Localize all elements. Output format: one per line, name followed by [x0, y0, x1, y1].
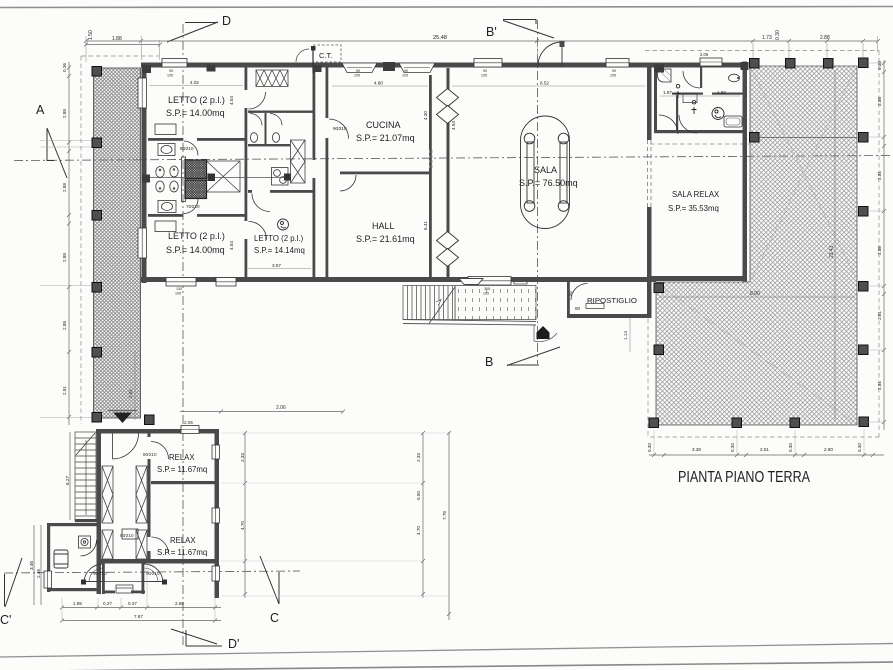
porch pillar P7 right of triangle	[145, 415, 155, 425]
sliding track line with blocks	[150, 177, 290, 179]
furniture letto1 dresser	[155, 124, 176, 135]
svg-text:2.33: 2.33	[416, 453, 421, 462]
wall: wc bottom y144	[248, 144, 290, 146]
window: south wall letto2	[166, 278, 236, 287]
laundry fixtures	[272, 168, 289, 186]
wall: ripostiglio right x647	[647, 281, 652, 318]
terrace diagonals	[657, 68, 856, 423]
porch landing step	[103, 582, 144, 594]
wall: ripostiglio bottom y314	[567, 314, 652, 318]
svg-text:SALA: SALA	[534, 165, 557, 175]
wall: hall right x429	[429, 75, 432, 277]
wc stall fixtures	[250, 114, 282, 143]
svg-text:2.88: 2.88	[62, 253, 67, 262]
wall: bottom bldg left lower	[97, 519, 102, 594]
window: bottom bldg top wall	[181, 426, 199, 434]
svg-text:C': C'	[0, 613, 11, 627]
svg-text:7.78: 7.78	[442, 511, 447, 520]
svg-text:2.81: 2.81	[62, 386, 67, 395]
svg-text:90⁄210: 90⁄210	[93, 571, 107, 576]
door arc: bath south	[184, 199, 199, 214]
wardrobe X-box bath east	[207, 161, 241, 192]
scan artifact bottom line 1	[0, 644, 893, 658]
wall: top exterior	[141, 63, 747, 68]
svg-text:2.81: 2.81	[877, 171, 882, 180]
svg-text:25.48: 25.48	[433, 35, 447, 41]
svg-text:D: D	[222, 14, 231, 28]
staircase bottom bldg	[75, 432, 96, 521]
dashed opening sala right wall	[648, 140, 652, 207]
door arc: letto3	[252, 194, 270, 212]
svg-text:80⁄210: 80⁄210	[180, 146, 194, 151]
window: top wall letto1	[162, 59, 187, 68]
wall: annex bottom	[47, 588, 101, 591]
svg-text:CUCINA: CUCINA	[366, 120, 401, 130]
svg-text:90: 90	[356, 69, 360, 73]
boiler annex	[79, 536, 91, 548]
bathtub NE	[724, 116, 742, 127]
svg-text:80: 80	[568, 290, 573, 296]
svg-text:7.87: 7.87	[134, 614, 143, 619]
washer annex	[54, 550, 68, 568]
window: top wall cucina 1 (trapezoid)	[342, 63, 377, 73]
svg-text:RELAX: RELAX	[169, 453, 195, 462]
wardrobe X-box top corridor	[256, 70, 288, 87]
svg-text:2.88: 2.88	[877, 97, 882, 106]
wall: annex top y523	[47, 523, 101, 526]
dim chains left of bottom bldg	[34, 432, 70, 605]
svg-text:80⁄210: 80⁄210	[143, 452, 157, 457]
svg-text:SALA RELAX: SALA RELAX	[672, 190, 720, 199]
left dimension chain	[40, 62, 92, 425]
svg-text:2.05: 2.05	[184, 420, 193, 425]
window: annex left wall	[44, 571, 52, 588]
washbasin NE	[683, 94, 697, 103]
person icon 1	[676, 84, 681, 98]
wc + bidet bath south	[156, 181, 178, 192]
window: south wall sala	[468, 277, 511, 286]
dimension labels top	[88, 30, 830, 57]
wall: bottom bldg top	[96, 429, 138, 434]
wall: corridor right x312	[313, 67, 316, 278]
svg-text:0.50: 0.50	[416, 491, 421, 500]
wall: corridor left x244	[245, 67, 248, 278]
svg-text:S.P.= 11.67mq: S.P.= 11.67mq	[157, 548, 207, 557]
wall: cucina-hall divider y171	[340, 172, 429, 175]
scan artifact bottom line 2	[0, 662, 893, 670]
window: bottom bldg right wall x3	[212, 445, 220, 581]
wall: ripostiglio left x567	[567, 282, 570, 318]
terrace inner dim horizontal	[660, 296, 855, 298]
svg-text:4.80: 4.80	[374, 81, 383, 86]
window: top wall sala 2	[606, 59, 629, 68]
svg-text:C.T.: C.T.	[319, 51, 332, 60]
window: wing left wall 1	[138, 78, 147, 108]
svg-text:6.27: 6.27	[65, 476, 70, 485]
band bottom landing edge	[403, 320, 536, 326]
svg-text:2.80: 2.80	[824, 447, 833, 452]
svg-text:130: 130	[176, 287, 182, 291]
svg-text:4.54: 4.54	[229, 241, 234, 250]
svg-text:2.88: 2.88	[62, 109, 67, 118]
svg-text:D': D'	[228, 637, 239, 651]
terrace pillar west column	[654, 283, 664, 293]
section line A-A' (horizontal dash-dot)	[14, 156, 890, 161]
top overall dimension line	[84, 36, 880, 62]
dark shower boxes center	[182, 157, 207, 202]
entrance arrow south	[537, 326, 550, 339]
pier between cucina windows	[383, 62, 395, 71]
svg-text:LETTO (2 p.l.): LETTO (2 p.l.)	[168, 231, 225, 241]
wall: sala right x647 upper	[647, 66, 652, 140]
door arc: C.T. entry	[296, 49, 309, 62]
porch pillar P1	[92, 67, 102, 77]
window: top wall cucina 2 (trapezoid)	[399, 63, 435, 73]
svg-text:2.88: 2.88	[62, 183, 67, 192]
svg-text:B': B'	[486, 25, 497, 39]
person icon 2	[692, 100, 697, 114]
svg-text:105: 105	[167, 74, 173, 78]
svg-text:1.97: 1.97	[663, 90, 672, 95]
wall: letto3 top y190	[248, 190, 252, 193]
svg-text:PIANTA PIANO TERRA: PIANTA PIANO TERRA	[678, 469, 811, 486]
svg-text:S.P.= 14.14mq: S.P.= 14.14mq	[254, 246, 305, 255]
terrace pillar row top	[750, 59, 760, 69]
svg-text:0.27: 0.27	[128, 601, 137, 606]
dim chains right of bottom bldg	[221, 431, 451, 620]
wall: bath block left x654	[654, 67, 657, 133]
svg-text:0.30: 0.30	[647, 443, 652, 452]
svg-text:LETTO (2 p.l.): LETTO (2 p.l.)	[254, 234, 304, 243]
curved porch step left bulge	[84, 564, 103, 582]
terrace pillar east column	[859, 133, 869, 143]
svg-text:6.41: 6.41	[423, 221, 428, 230]
shower NE	[658, 69, 672, 82]
porch pillar P3	[92, 211, 102, 221]
porch pillar P2	[92, 138, 102, 148]
svg-text:S.P.= 35.53mq: S.P.= 35.53mq	[668, 204, 719, 213]
svg-text:0.30: 0.30	[775, 30, 781, 40]
svg-text:70⁄210: 70⁄210	[186, 204, 200, 209]
main entrance door arc (sala top)	[538, 42, 562, 66]
svg-text:8.52: 8.52	[540, 81, 549, 86]
curved porch step right bulge	[144, 564, 163, 582]
svg-text:1.73: 1.73	[762, 35, 772, 41]
vestibule walls	[102, 563, 105, 594]
accessibility circle letto3	[278, 219, 289, 230]
small table corridor	[122, 529, 138, 539]
svg-text:S.P.= 14.00mq: S.P.= 14.00mq	[166, 108, 225, 118]
svg-text:90: 90	[404, 69, 408, 73]
door arc: hall	[340, 175, 356, 191]
hall-sala column diamonds pair2	[437, 232, 459, 267]
porch pillar P6	[92, 413, 102, 423]
svg-text:HALL: HALL	[372, 221, 395, 231]
svg-text:2.88: 2.88	[62, 321, 67, 330]
wall: bottom bldg left upper	[97, 429, 102, 520]
bottom dim rows	[60, 563, 221, 623]
wall: cucina left x325	[326, 67, 329, 278]
wall: relax2 bottom / porch top y559	[101, 559, 219, 564]
svg-text:S.P.= 21.07mq: S.P.= 21.07mq	[356, 133, 415, 143]
terrace boundary lines	[656, 66, 857, 425]
closet X-boxes corridor	[102, 466, 147, 559]
svg-text:90: 90	[612, 69, 616, 73]
sala oval table	[521, 116, 570, 229]
svg-text:90⁄210: 90⁄210	[146, 571, 160, 576]
svg-text:0.27: 0.27	[103, 601, 112, 606]
dashed roof overhang outline left strip	[81, 56, 159, 424]
svg-text:3.46: 3.46	[29, 561, 34, 570]
svg-text:105: 105	[610, 74, 616, 78]
wall: bath zone bottom y214	[148, 214, 183, 217]
svg-text:LETTO (2 p.l.): LETTO (2 p.l.)	[168, 95, 225, 105]
dashed roof overhang outline right terrace	[645, 51, 879, 438]
sink counter bath south	[158, 201, 176, 213]
C.T. boiler room box	[313, 45, 341, 62]
wall: annex left	[47, 523, 50, 571]
wc NE	[729, 74, 740, 82]
svg-text:0.30: 0.30	[730, 443, 735, 452]
svg-text:B: B	[485, 355, 493, 369]
svg-text:90: 90	[169, 69, 173, 73]
svg-text:4.54: 4.54	[451, 121, 456, 130]
terrace hatch lower block	[656, 282, 750, 425]
sill trapezoid on south wall	[459, 279, 483, 285]
wall: sala left x446	[447, 68, 450, 277]
wall: wing left exterior	[142, 63, 147, 284]
svg-text:1.50: 1.50	[88, 30, 94, 40]
svg-text:S.P.= 21.61mq: S.P.= 21.61mq	[356, 234, 415, 244]
svg-text:2.46: 2.46	[36, 569, 41, 578]
svg-text:105: 105	[354, 74, 360, 78]
svg-text:2.05: 2.05	[700, 52, 709, 57]
window: bath block top	[700, 58, 722, 66]
tiny window marks	[167, 69, 616, 296]
dashed opening hall right wall	[430, 150, 433, 170]
entrance arrow triangle at strip end	[113, 413, 132, 424]
door arc: bottom bldg entrance	[113, 433, 139, 459]
wall: east exterior x742	[743, 62, 748, 282]
svg-text:3.28: 3.28	[692, 447, 701, 452]
svg-text:2.33: 2.33	[240, 453, 245, 462]
svg-text:0.30: 0.30	[857, 443, 862, 452]
furniture letto2 dresser	[155, 221, 176, 232]
window: wing left wall 2	[138, 228, 147, 258]
svg-text:0.30: 0.30	[877, 61, 882, 70]
door arc: relax1	[151, 442, 169, 460]
svg-text:23.41: 23.41	[829, 245, 835, 258]
svg-text:C: C	[270, 611, 279, 625]
wall: sala right x647 lower	[647, 207, 652, 318]
staircase west in band	[403, 286, 455, 324]
door arc NE2	[679, 115, 697, 133]
wall: corridor east x147	[148, 433, 151, 437]
svg-text:3.57: 3.57	[272, 263, 281, 268]
hall-sala column diamonds pair1	[437, 89, 459, 124]
wardrobe X-box x290	[291, 140, 306, 183]
svg-text:2.88: 2.88	[877, 246, 882, 255]
svg-text:1.80: 1.80	[717, 90, 726, 95]
disabled circle icon	[712, 108, 724, 120]
svg-text:90⁄210: 90⁄210	[333, 126, 347, 131]
porch pillar P5	[92, 348, 102, 358]
svg-text:0.30: 0.30	[788, 443, 793, 452]
svg-text:2.81: 2.81	[877, 311, 882, 320]
wc + bidet bath north	[156, 166, 178, 178]
svg-text:0.36: 0.36	[62, 63, 67, 72]
scan artifact top line	[0, 7, 893, 8]
section line D-D' (vertical dash-dot)	[182, 24, 184, 646]
window: top wall sala 1	[474, 59, 502, 68]
wall: wc top y110	[248, 111, 313, 113]
door arc: bath north	[184, 141, 199, 156]
wall: wc divider x265	[265, 113, 267, 144]
svg-text:S.P.= 76.50mq: S.P.= 76.50mq	[519, 178, 578, 188]
interior dim lines faint	[149, 86, 740, 269]
door arc ripostiglio	[571, 284, 588, 301]
svg-text:4.54: 4.54	[229, 96, 234, 105]
svg-text:2.51: 2.51	[760, 447, 769, 452]
svg-text:S.P.= 14.00mq: S.P.= 14.00mq	[166, 245, 225, 255]
terrace pillar bottom row	[649, 418, 659, 428]
wall pier: left wall middle	[142, 175, 150, 183]
svg-text:4.30: 4.30	[423, 111, 428, 120]
section line C-C' (horizontal dash-dot)	[4, 571, 300, 573]
svg-text:2.88: 2.88	[820, 35, 830, 41]
wall: bath block bottom y130	[654, 130, 747, 133]
wall: bottom bldg right	[215, 429, 220, 598]
wall: sala relax bottom	[647, 276, 747, 281]
door arc: cucina	[329, 119, 349, 139]
svg-text:8.00: 8.00	[750, 291, 760, 297]
svg-text:4.02: 4.02	[190, 80, 199, 85]
svg-text:1.85: 1.85	[73, 601, 82, 606]
wall: bath zone top y138	[148, 138, 183, 141]
svg-text:80: 80	[575, 306, 581, 311]
svg-text:1.14: 1.14	[623, 331, 628, 340]
wall: relax divider y481	[151, 481, 219, 484]
svg-text:4.70: 4.70	[416, 526, 421, 535]
svg-text:105: 105	[175, 292, 181, 296]
door arc NE1	[683, 71, 700, 88]
door arc: annex	[81, 540, 97, 556]
svg-text:A: A	[36, 103, 45, 117]
section line B-B' (vertical dash-dot)	[537, 20, 539, 364]
door arc: sala relax from bath	[659, 115, 678, 134]
svg-text:RELAX: RELAX	[170, 536, 196, 545]
svg-text:4.70: 4.70	[240, 521, 245, 530]
door gaps in interior walls	[244, 90, 329, 239]
svg-text:S.P.= 11.67mq: S.P.= 11.67mq	[157, 465, 207, 474]
svg-text:90: 90	[483, 69, 487, 73]
terrace inner dim vertical 23.41	[834, 70, 836, 420]
svg-text:105: 105	[402, 74, 408, 78]
svg-text:1.88: 1.88	[112, 36, 122, 42]
wall: stairs top y519	[75, 519, 101, 522]
wall: south exterior (wing+sala)	[141, 277, 656, 282]
right dimension chain	[868, 60, 886, 430]
bottom terrace dimension chain	[649, 429, 884, 457]
svg-text:105: 105	[481, 74, 487, 78]
partition walls NE block	[700, 67, 702, 88]
svg-text:2.81: 2.81	[877, 381, 882, 390]
door arc: relax2	[152, 537, 169, 554]
svg-text:2.06: 2.06	[276, 405, 286, 411]
wall pier: top wall corner blocks	[142, 65, 151, 73]
terrace pillar mid row	[750, 133, 760, 143]
svg-text:2.88: 2.88	[175, 601, 184, 606]
terrace hatch right strip	[750, 66, 857, 425]
door arc: letto1 from corridor	[249, 92, 266, 109]
svg-text:2.81: 2.81	[128, 389, 133, 398]
left porch strip hatch	[94, 68, 141, 418]
door arc: letto2 from corridor	[249, 222, 267, 240]
sink counter bath north	[158, 144, 175, 156]
dim above bottom bldg	[180, 411, 343, 413]
porch pillar P4	[92, 283, 102, 293]
